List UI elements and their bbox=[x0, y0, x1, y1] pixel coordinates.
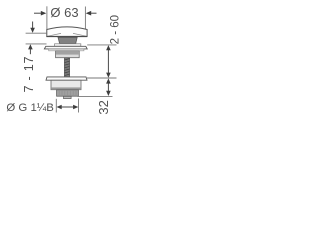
dimension G1-1/4 right extension line bbox=[78, 99, 80, 113]
mounting plate bbox=[46, 77, 87, 80]
dimension 7-17 upper extension line bbox=[26, 32, 47, 34]
dimension 32 bottom extension line bbox=[78, 95, 113, 97]
dimension 2-60 top extension line bbox=[87, 44, 116, 46]
neck under cap bbox=[58, 37, 77, 43]
dimension D63 left arrow bbox=[34, 11, 46, 16]
dimension 32 line with arrows bbox=[106, 78, 111, 96]
dimension 7-17 upper arrow bbox=[30, 22, 35, 33]
upper plate bbox=[55, 44, 81, 46]
flange bbox=[44, 46, 87, 49]
nut body bbox=[51, 80, 81, 89]
dimension D63 right arrow bbox=[86, 11, 97, 16]
svg-text:Ø 63: Ø 63 bbox=[50, 5, 78, 20]
dimension 7-17 lower extension line bbox=[26, 43, 47, 45]
cap (valve plug top) bbox=[47, 27, 87, 37]
dimension G1-1/4 left extension line bbox=[55, 99, 57, 113]
threaded stem bbox=[64, 58, 69, 77]
stem thread hatch bbox=[65, 59, 70, 76]
tailpipe thread bbox=[57, 90, 79, 96]
dimension 7-17 lower arrow bbox=[28, 44, 33, 54]
tail tip bbox=[64, 96, 72, 98]
svg-text:32: 32 bbox=[96, 100, 111, 114]
dimension D63 left extension line bbox=[46, 6, 48, 35]
lower plate bbox=[49, 49, 84, 51]
cap bottom line bbox=[46, 36, 87, 38]
gasket upper dark band bbox=[56, 51, 79, 54]
svg-text:2 - 60: 2 - 60 bbox=[109, 15, 121, 44]
dimension 2-60 mid extension line bbox=[87, 77, 117, 79]
svg-text:Ø G 1¼B: Ø G 1¼B bbox=[6, 102, 53, 114]
dimension 2-60 line with arrows bbox=[106, 45, 111, 78]
dimension G1-1/4 line with arrows bbox=[57, 105, 79, 110]
svg-text:7 - 17: 7 - 17 bbox=[22, 56, 36, 93]
dimension D63 right extension line bbox=[84, 7, 86, 34]
tailpipe thread lines bbox=[59, 90, 76, 96]
gasket block bbox=[56, 51, 80, 58]
nut bottom dark band bbox=[51, 87, 81, 89]
